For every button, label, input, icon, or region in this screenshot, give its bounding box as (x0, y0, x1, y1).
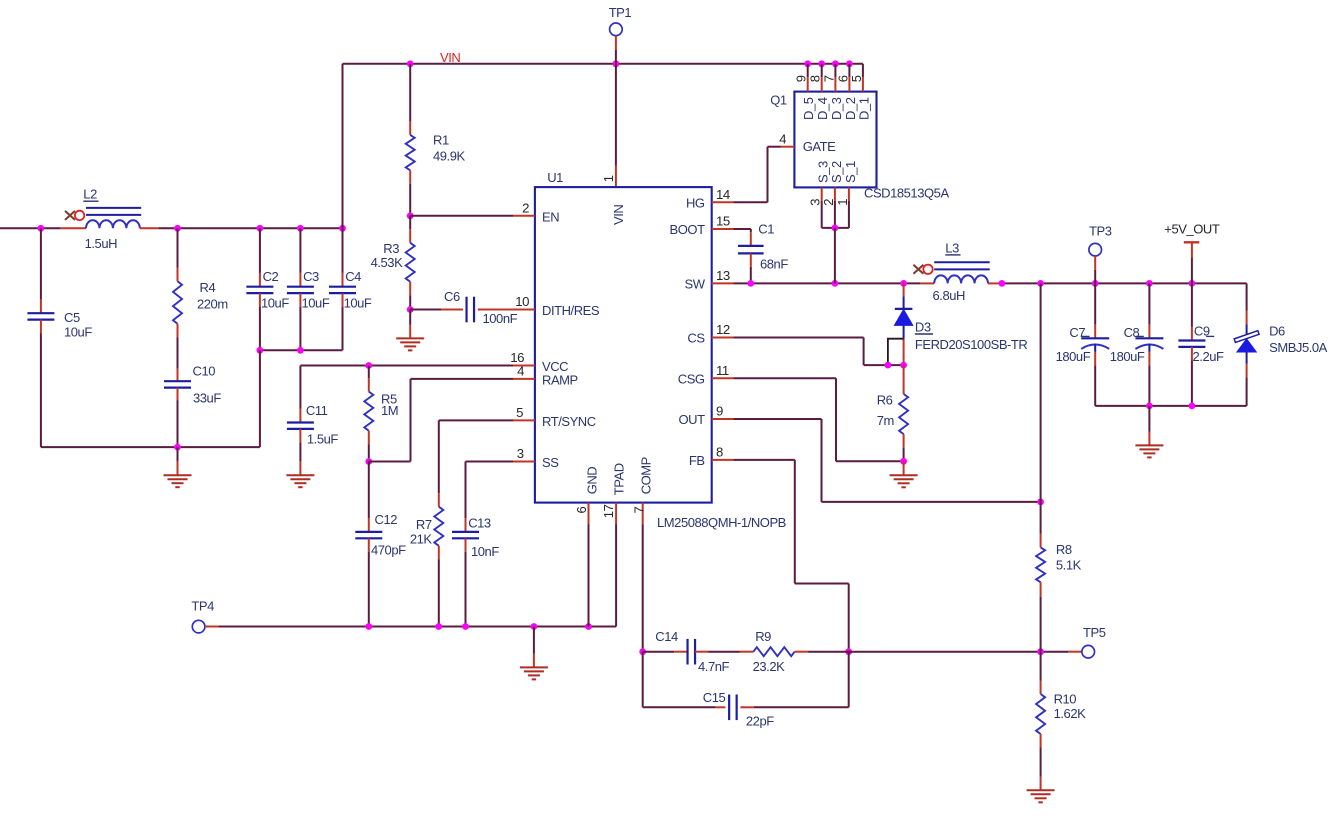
svg-text:R4: R4 (200, 280, 216, 295)
svg-text:R7: R7 (416, 517, 432, 532)
wire VIN rail (343, 63, 863, 65)
ground on bottom rail (533, 627, 535, 654)
svg-text:TP1: TP1 (609, 5, 632, 20)
ground below C11 (299, 462, 301, 476)
wire link down to bottom rail (259, 350, 261, 447)
ground below R6 (903, 461, 905, 475)
Q1 drain pins top (807, 64, 809, 78)
wire TPAD pin riser (615, 524, 617, 626)
test point TP3 (1089, 243, 1102, 256)
svg-text:TPAD: TPAD (611, 463, 626, 495)
svg-text:SS: SS (542, 455, 559, 470)
wire SW rail (733, 282, 920, 284)
inductor L2 (60, 227, 86, 229)
svg-text:C12: C12 (375, 512, 398, 527)
svg-text:1: 1 (835, 199, 850, 206)
svg-text:EN: EN (542, 209, 559, 224)
ground below R10 (1040, 777, 1042, 791)
resistor R8 (1040, 502, 1042, 534)
svg-text:C7: C7 (1069, 325, 1085, 340)
svg-text:CSD18513Q5A: CSD18513Q5A (864, 186, 949, 201)
Q1 source pins bottom (821, 187, 823, 201)
svg-text:FERD20S100SB-TR: FERD20S100SB-TR (915, 337, 1028, 352)
capacitor C10 (177, 338, 179, 369)
svg-text:C1: C1 (758, 221, 774, 236)
wire input rail left (0, 227, 60, 229)
svg-text:220m: 220m (197, 297, 228, 312)
test point TP5 (1082, 645, 1095, 658)
svg-text:C13: C13 (468, 516, 491, 531)
svg-text:180uF: 180uF (1056, 349, 1091, 364)
resistor R10 (1040, 652, 1042, 681)
svg-text:S_1: S_1 (843, 161, 858, 183)
svg-text:5: 5 (516, 405, 523, 420)
capacitor C9 (1191, 283, 1193, 327)
svg-text:+5V_OUT: +5V_OUT (1164, 222, 1220, 237)
U1 bottom pin stubs (588, 503, 590, 524)
svg-text:TP4: TP4 (191, 599, 214, 614)
svg-text:C10: C10 (193, 364, 216, 379)
svg-text:12: 12 (716, 322, 730, 337)
no-connect probe marker L3 (913, 265, 923, 274)
svg-text:9: 9 (716, 404, 723, 419)
svg-text:13: 13 (716, 268, 730, 283)
svg-text:2: 2 (821, 199, 836, 206)
capacitor C3 (299, 228, 301, 273)
wire FB net (733, 459, 795, 461)
svg-text:VIN: VIN (440, 50, 460, 65)
svg-text:C3: C3 (303, 269, 319, 284)
svg-text:D6: D6 (1269, 324, 1285, 339)
wire OUT net (733, 418, 821, 420)
resistor R1 (409, 64, 411, 122)
test point TP1 (610, 23, 623, 36)
resistor R7 (438, 493, 440, 507)
wire VCC net (300, 365, 513, 367)
svg-text:CSG: CSG (678, 371, 705, 386)
U1 left pin stubs (513, 215, 535, 217)
wire D3 anode to sense node (903, 339, 905, 365)
svg-text:BOOT: BOOT (670, 222, 706, 237)
svg-text:R1: R1 (433, 133, 449, 148)
svg-text:23.2K: 23.2K (753, 659, 786, 674)
svg-text:S_2: S_2 (829, 161, 844, 183)
svg-text:RT/SYNC: RT/SYNC (542, 414, 596, 429)
svg-text:4.53K: 4.53K (371, 255, 404, 270)
svg-text:GND: GND (584, 467, 599, 495)
test point TP4 (192, 620, 205, 633)
svg-text:HG: HG (686, 195, 705, 210)
wire output rail (1002, 282, 1247, 284)
svg-text:1M: 1M (381, 403, 398, 418)
capacitor C12 (368, 462, 370, 519)
resistor R5 (368, 366, 370, 379)
svg-text:180uF: 180uF (1110, 349, 1145, 364)
wire RT/SYNC net (439, 419, 514, 421)
capacitor C8 (1148, 283, 1150, 324)
wire sources to SW rail (834, 228, 836, 284)
svg-text:R8: R8 (1056, 542, 1072, 557)
svg-text:R6: R6 (877, 392, 893, 407)
svg-text:10uF: 10uF (344, 296, 372, 311)
capacitor C7 (1094, 283, 1096, 324)
svg-text:D_3: D_3 (829, 97, 844, 120)
svg-text:10uF: 10uF (302, 296, 330, 311)
svg-text:GATE: GATE (803, 139, 836, 154)
svg-text:TP3: TP3 (1089, 224, 1112, 239)
U1 right pin stubs (712, 201, 734, 203)
svg-text:4: 4 (779, 132, 786, 147)
wire ceramic caps lower link (260, 349, 343, 351)
op-amp U1 body LM25088 (535, 187, 712, 503)
svg-text:6: 6 (574, 507, 589, 514)
svg-text:R9: R9 (755, 629, 771, 644)
svg-text:2.2uF: 2.2uF (1193, 349, 1225, 364)
diode D3 (903, 283, 905, 296)
capacitor C11 (299, 366, 301, 409)
svg-text:11: 11 (716, 363, 729, 378)
wire EN net (407, 212, 414, 219)
wire GND pin riser (588, 524, 590, 626)
wire bottom middle rail (219, 626, 616, 628)
capacitor C14 (643, 651, 674, 653)
capacitor C2 (259, 228, 261, 273)
svg-text:10: 10 (515, 294, 529, 309)
svg-text:5.1K: 5.1K (1056, 557, 1082, 572)
svg-text:1.5uF: 1.5uF (307, 432, 339, 447)
svg-text:10uF: 10uF (64, 325, 92, 340)
svg-text:7: 7 (631, 507, 646, 514)
transistor Q1 CSD18513Q5A body (794, 92, 876, 188)
wire FB node to TP5 (849, 651, 1068, 653)
wire U1 VIN pin 1 (615, 64, 617, 166)
svg-text:C8: C8 (1124, 325, 1140, 340)
svg-text:5: 5 (849, 75, 864, 82)
capacitor C13 (465, 518, 467, 532)
svg-text:15: 15 (716, 214, 730, 229)
wire VIN riser (342, 64, 344, 229)
capacitor C6 (407, 306, 414, 313)
svg-text:49.9K: 49.9K (433, 148, 466, 163)
svg-text:TP5: TP5 (1083, 625, 1106, 640)
svg-text:D3: D3 (915, 320, 931, 335)
svg-text:17: 17 (601, 504, 616, 518)
capacitor C1 (750, 232, 752, 246)
ground below R3 (409, 310, 411, 325)
wire output caps bottom rail (1095, 405, 1246, 407)
wire CS net (733, 337, 863, 339)
ground below output caps (1148, 406, 1150, 432)
svg-text:LM25088QMH-1/NOPB: LM25088QMH-1/NOPB (657, 515, 786, 530)
node VIN rail junctions (407, 60, 414, 67)
svg-text:4: 4 (517, 363, 524, 378)
wire CSG net (733, 377, 836, 379)
wire BOOT net (733, 228, 751, 230)
svg-text:SMBJ5.0A: SMBJ5.0A (1269, 340, 1328, 355)
svg-text:R3: R3 (383, 241, 399, 256)
svg-text:2: 2 (522, 200, 529, 215)
svg-text:21K: 21K (410, 531, 433, 546)
power symbol +5V_OUT (1184, 241, 1200, 243)
wire input rail to VIN riser (159, 227, 343, 229)
wire output to R8 (1040, 283, 1042, 502)
svg-text:1.62K: 1.62K (1054, 706, 1087, 721)
capacitor C4 (342, 228, 344, 273)
svg-text:470pF: 470pF (371, 543, 406, 558)
Q1 gate pin 4 (781, 146, 795, 148)
svg-text:3: 3 (517, 446, 524, 461)
svg-text:D_1: D_1 (856, 97, 871, 120)
svg-text:D_5: D_5 (801, 97, 816, 120)
node SW and output rail junctions (747, 280, 754, 287)
svg-text:22pF: 22pF (746, 714, 774, 729)
wire COMP pin riser (642, 524, 644, 652)
resistor R4 (177, 228, 179, 267)
svg-text:C2: C2 (263, 269, 279, 284)
capacitor C5 (40, 228, 42, 299)
svg-text:1.5uH: 1.5uH (85, 236, 118, 251)
svg-text:7: 7 (821, 75, 836, 82)
resistor R3 (409, 216, 411, 230)
svg-text:RAMP: RAMP (542, 372, 578, 387)
no-connect probe marker L2 (65, 211, 75, 220)
svg-text:68nF: 68nF (760, 256, 788, 271)
svg-text:VIN: VIN (611, 205, 626, 225)
wire bottom-left rail (41, 446, 260, 448)
svg-text:R10: R10 (1054, 692, 1077, 707)
svg-text:C14: C14 (655, 629, 678, 644)
svg-text:L3: L3 (945, 240, 959, 255)
kelvin sense elbow (888, 339, 904, 365)
svg-text:C6: C6 (444, 289, 460, 304)
svg-text:FB: FB (689, 453, 705, 468)
svg-text:U1: U1 (547, 170, 563, 185)
svg-text:6.8uH: 6.8uH (933, 288, 966, 303)
svg-text:8: 8 (716, 444, 723, 459)
svg-text:OUT: OUT (679, 412, 706, 427)
svg-text:DITH/RES: DITH/RES (542, 303, 600, 318)
svg-text:33uF: 33uF (193, 391, 221, 406)
svg-text:Q1: Q1 (770, 93, 787, 108)
svg-text:1: 1 (601, 175, 616, 182)
inductor L3 (920, 282, 934, 284)
svg-text:9: 9 (794, 75, 809, 82)
node input rail junctions (38, 225, 45, 232)
svg-text:SW: SW (685, 276, 706, 291)
svg-text:L2: L2 (83, 187, 97, 202)
svg-text:14: 14 (716, 187, 730, 202)
svg-text:C11: C11 (306, 403, 328, 418)
wire SS net (466, 461, 514, 463)
resistor R9 (709, 651, 740, 653)
svg-text:CS: CS (687, 331, 705, 346)
wire source bracket (822, 227, 849, 229)
svg-text:7m: 7m (877, 413, 894, 428)
svg-text:100nF: 100nF (483, 311, 518, 326)
wire HG to gate (767, 147, 769, 203)
ground for input filter (177, 447, 179, 462)
svg-text:C15: C15 (703, 690, 726, 705)
resistor R6 (903, 365, 905, 394)
svg-text:C4: C4 (345, 269, 361, 284)
svg-text:C5: C5 (64, 310, 80, 325)
svg-text:COMP: COMP (639, 457, 654, 494)
svg-text:10nF: 10nF (471, 544, 499, 559)
svg-text:10uF: 10uF (261, 296, 289, 311)
capacitor C15 (643, 706, 716, 708)
svg-text:4.7nF: 4.7nF (698, 659, 730, 674)
wire RAMP net (365, 458, 372, 465)
diode D6 TVS (1246, 283, 1248, 311)
